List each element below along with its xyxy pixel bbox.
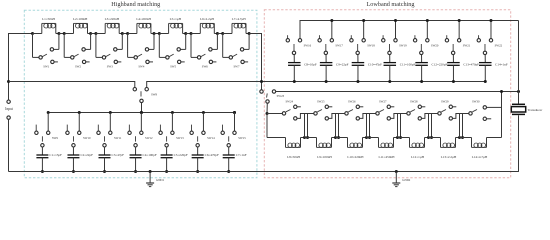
wire highband mid rail — [48, 112, 234, 114]
svg-text:C14=1nF: C14=1nF — [495, 63, 508, 67]
svg-text:GND2: GND2 — [402, 178, 410, 182]
switch SW4 (bypass L4) — [128, 34, 154, 69]
node L6 left — [190, 32, 193, 35]
wire L3 lead-in — [96, 33, 105, 35]
wire C1 to ground rail — [41, 158, 43, 172]
svg-text:L14=4.7μH: L14=4.7μH — [472, 155, 488, 159]
wire chain lead-out L8 — [301, 137, 305, 139]
inductor L2 — [73, 17, 88, 34]
wire L3 lead-out — [119, 33, 122, 35]
switch SW6 (bypass L6) — [191, 34, 217, 69]
switch SW7 (bypass L7) — [223, 34, 249, 69]
svg-text:C4=100pF: C4=100pF — [143, 153, 157, 157]
switch SW17 (series with C9) — [318, 35, 344, 62]
svg-text:L5=1μH: L5=1μH — [170, 17, 182, 21]
node mid-rail riser C4 — [140, 111, 143, 114]
capacitor C13 — [447, 63, 479, 67]
node chain output junction — [500, 90, 503, 93]
switch SW15 (series with C7) — [221, 113, 246, 155]
svg-text:SW25: SW25 — [317, 100, 325, 104]
wire input column upper — [8, 33, 10, 100]
switch SW26 (bypass L10) — [339, 100, 376, 139]
svg-text:SW28: SW28 — [410, 100, 418, 104]
wire L2 lead-in — [64, 33, 73, 35]
wire C7 to ground rail — [228, 158, 230, 172]
svg-text:SW3: SW3 — [107, 65, 114, 69]
wire L1 lead-out — [56, 33, 59, 35]
node top-rail C12 — [426, 19, 429, 22]
switch SW14 (series with C6) — [190, 113, 215, 155]
capacitor C4 — [130, 153, 157, 158]
node L6 right — [216, 32, 219, 35]
wire L7 lead-in — [223, 33, 232, 35]
node mid rail right end — [233, 111, 236, 114]
wire L5 lead-out — [183, 33, 186, 35]
wire C13 down — [452, 65, 454, 81]
capacitor C6 — [192, 153, 219, 158]
node L4 right — [153, 32, 156, 35]
svg-text:C8=10pF: C8=10pF — [304, 63, 317, 67]
switch SW13 (series with C5) — [159, 113, 184, 155]
wire riser C9 — [331, 21, 333, 41]
wire L1 lead-in — [33, 33, 42, 35]
svg-text:Transducer: Transducer — [528, 108, 544, 112]
svg-text:SW5: SW5 — [170, 65, 177, 69]
svg-text:L3=220nH: L3=220nH — [105, 17, 120, 21]
svg-text:L11=450nH: L11=450nH — [378, 155, 395, 159]
switch SW10 (series with C2) — [66, 113, 91, 155]
capacitor C11 — [384, 63, 416, 67]
transducer (crystal symbol) — [511, 104, 543, 114]
capacitor C12 — [415, 63, 447, 67]
capacitor C3 — [99, 153, 125, 158]
node C5 ground — [165, 170, 168, 173]
wire shunt-select rail right — [147, 82, 486, 88]
wire transducer to ground — [518, 115, 520, 172]
svg-text:L2=100nH: L2=100nH — [73, 17, 88, 21]
switch SW18 (series with C10) — [350, 35, 376, 62]
svg-text:SW12: SW12 — [145, 136, 153, 140]
node L1 left — [31, 32, 34, 35]
svg-text:SW2: SW2 — [75, 65, 82, 69]
svg-text:L13=2.2μH: L13=2.2μH — [441, 155, 457, 159]
inductor L1 — [42, 17, 56, 34]
svg-text:SW29: SW29 — [441, 100, 449, 104]
node mid-rail riser C6 — [202, 111, 205, 114]
node top-rail C11 — [394, 19, 397, 22]
svg-text:C11=100pF: C11=100pF — [400, 63, 416, 67]
wire chain lead-out L9 — [332, 137, 336, 139]
inductor L6 — [200, 17, 214, 34]
node SW8-rail — [140, 111, 143, 114]
svg-text:L1=50nH: L1=50nH — [42, 17, 55, 21]
svg-text:SW24: SW24 — [286, 100, 294, 104]
node lowband input — [266, 112, 269, 115]
wire C10 down — [357, 65, 359, 81]
svg-text:SW21: SW21 — [463, 44, 471, 48]
svg-text:L6=2.2μH: L6=2.2μH — [200, 17, 214, 21]
wire L5 lead-in — [159, 33, 168, 35]
switch SW1 (bypass L1) — [33, 34, 59, 69]
svg-text:L12=1μH: L12=1μH — [411, 155, 425, 159]
wire C12 down — [421, 65, 423, 81]
capacitor C2 — [67, 153, 93, 158]
wire chain lead-out L11 — [394, 137, 398, 139]
node top-rail C13 — [458, 19, 461, 22]
wire input column lower — [8, 119, 10, 171]
wire chain segment before L9 — [305, 137, 317, 139]
inductor L12 — [410, 138, 425, 160]
wire C4 to ground rail — [135, 158, 137, 172]
node L12 right — [427, 136, 430, 139]
svg-text:L4=450nH: L4=450nH — [136, 17, 151, 21]
wire chain segment before L10 — [336, 137, 348, 139]
svg-text:SW8: SW8 — [151, 93, 158, 97]
inductor L10 — [347, 138, 364, 160]
node top-rail C10 — [362, 19, 365, 22]
wire rail segment after L6 — [217, 33, 222, 35]
wire rail segment after L1 — [59, 33, 64, 35]
svg-text:GND1: GND1 — [156, 178, 164, 182]
svg-text:C9=22pF: C9=22pF — [336, 63, 349, 67]
inductor L4 — [136, 17, 151, 34]
wire riser C12 — [426, 21, 428, 41]
node transducer top — [517, 90, 520, 93]
wire chain segment before L12 — [398, 137, 410, 139]
switch SW21 (series with C13) — [445, 35, 471, 62]
node L2 left — [63, 32, 66, 35]
node C9 rail — [325, 80, 328, 83]
svg-text:SW20: SW20 — [431, 44, 439, 48]
switch SW27 (bypass L11) — [370, 100, 407, 139]
svg-text:C10=47pF: C10=47pF — [368, 63, 382, 67]
node C7 ground — [227, 170, 230, 173]
wire C9 down — [325, 65, 327, 81]
capacitor C14 — [479, 63, 508, 67]
switch SW16 (series with C8) — [286, 35, 312, 62]
lowband title — [367, 1, 415, 8]
Input label — [5, 107, 13, 111]
ground GND1 — [146, 170, 164, 187]
svg-text:SW6: SW6 — [202, 65, 209, 69]
node L3 left — [94, 32, 97, 35]
wire L4 lead-out — [151, 33, 154, 35]
inductor L11 — [378, 138, 395, 160]
wire lowband input drop — [266, 114, 268, 138]
svg-text:SW17: SW17 — [335, 44, 343, 48]
switch SW5 (bypass L5) — [159, 34, 185, 69]
wire L6 lead-in — [191, 33, 200, 35]
node L7 left — [221, 32, 224, 35]
svg-text:SW7: SW7 — [234, 65, 241, 69]
inductor L3 — [105, 17, 120, 34]
svg-text:C5=220pF: C5=220pF — [174, 153, 188, 157]
node C6 ground — [196, 170, 199, 173]
svg-text:SW14: SW14 — [207, 136, 215, 140]
wire chain segment before L14 — [460, 137, 472, 139]
svg-text:Input: Input — [5, 107, 13, 111]
wire top rail drop / transducer feed — [518, 21, 520, 104]
capacitor C1 — [36, 153, 62, 158]
switch SW11 (series with C3) — [97, 113, 122, 155]
node mid-rail riser C3 — [109, 111, 112, 114]
node top-rail C9 — [330, 19, 333, 22]
svg-text:SW1: SW1 — [43, 65, 50, 69]
wire L6 lead-out — [214, 33, 217, 35]
node mid rail left end — [47, 111, 50, 114]
svg-text:C3=47pF: C3=47pF — [112, 153, 125, 157]
wire chain lead-out L13 — [456, 137, 460, 139]
node C11 rail — [388, 80, 391, 83]
node L11 right — [396, 136, 399, 139]
node C13 rail — [452, 80, 455, 83]
highband matching dashed box — [24, 10, 257, 178]
node mid-rail riser C7 — [233, 111, 236, 114]
svg-text:SW4: SW4 — [138, 65, 145, 69]
node L4 left — [126, 32, 129, 35]
svg-text:SW15: SW15 — [238, 136, 246, 140]
wire L4 lead-in — [128, 33, 137, 35]
svg-text:L9=100nH: L9=100nH — [317, 155, 332, 159]
svg-text:SW9: SW9 — [52, 136, 59, 140]
switch SW9 (series with C1) — [35, 113, 59, 155]
ground GND2 — [392, 170, 410, 187]
wire rail segment after L4 — [154, 33, 159, 35]
wire C14 down — [484, 65, 486, 81]
capacitor C9 — [320, 63, 349, 67]
wire chain lead-out L10 — [363, 137, 367, 139]
switch SW30 (bypass L14) — [463, 92, 502, 138]
wire L2 lead-out — [88, 33, 91, 35]
node L8 right — [303, 136, 306, 139]
switch SW22 (series with C14) — [477, 35, 503, 62]
node mid-rail riser C2 — [78, 111, 81, 114]
wire riser C11 — [394, 21, 396, 41]
inductor L14 — [472, 138, 488, 160]
wire shunt-select rail left — [9, 82, 135, 88]
wire riser C14 — [490, 21, 492, 41]
capacitor C8 — [288, 63, 317, 67]
inductor L8 — [286, 138, 301, 160]
svg-text:SW30: SW30 — [472, 100, 480, 104]
switch SW3 (bypass L3) — [96, 34, 122, 69]
node C3 ground — [103, 170, 106, 173]
capacitor C5 — [161, 153, 188, 158]
node L5 left — [158, 32, 161, 35]
wire C2 to ground rail — [72, 158, 74, 172]
svg-text:C12=220pF: C12=220pF — [432, 63, 448, 67]
switch SW12 (series with C4) — [128, 113, 153, 155]
wire chain segment before L13 — [429, 137, 441, 139]
node C8 rail — [293, 80, 296, 83]
svg-text:SW11: SW11 — [114, 136, 122, 140]
node C12 rail — [420, 80, 423, 83]
input terminal lower — [7, 116, 10, 119]
svg-text:C1=15pF: C1=15pF — [49, 153, 62, 157]
wire highband output drop — [261, 33, 263, 90]
svg-text:SW27: SW27 — [379, 100, 387, 104]
wire top rail from input — [9, 33, 33, 35]
inductor L13 — [441, 138, 457, 160]
capacitor C7 — [223, 153, 247, 158]
switch SW20 (series with C12) — [413, 35, 439, 62]
wire riser C13 — [458, 21, 460, 41]
capacitor C10 — [352, 63, 382, 67]
wire chain lead-out L12 — [425, 137, 429, 139]
wire chain segment before L11 — [367, 137, 379, 139]
node L1 right — [57, 32, 60, 35]
svg-text:C13=470pF: C13=470pF — [463, 63, 479, 67]
switch SW2 (bypass L2) — [64, 34, 90, 69]
svg-text:C6=470pF: C6=470pF — [205, 153, 219, 157]
wire C11 down — [389, 65, 391, 81]
svg-text:SW19: SW19 — [399, 44, 407, 48]
node highband-out crossing — [260, 80, 263, 83]
svg-text:SW23: SW23 — [277, 94, 285, 98]
wire bottom ground rail — [9, 171, 519, 173]
node C14 rail — [484, 80, 487, 83]
switch SW29 (bypass L13) — [432, 100, 469, 139]
svg-text:SW18: SW18 — [367, 44, 375, 48]
svg-text:L8=50nH: L8=50nH — [287, 155, 300, 159]
svg-text:Lowband matching: Lowband matching — [367, 1, 415, 8]
node L7 right — [248, 32, 251, 35]
switch SW25 (bypass L9) — [308, 100, 345, 139]
svg-text:L7=4.7μH: L7=4.7μH — [232, 17, 246, 21]
svg-text:SW10: SW10 — [83, 136, 91, 140]
node C2 ground — [72, 170, 75, 173]
node mid-rail riser C5 — [171, 111, 174, 114]
svg-text:SW22: SW22 — [495, 44, 503, 48]
node C4 ground — [134, 170, 137, 173]
node C1 ground — [41, 170, 44, 173]
wire rail segment after L3 — [122, 33, 127, 35]
inductor L5 — [169, 17, 183, 34]
wire rail segment after L5 — [186, 33, 191, 35]
node L9 right — [334, 136, 337, 139]
wire C5 to ground rail — [166, 158, 168, 172]
switch SW23 (lowband bypass select) — [260, 90, 285, 114]
highband title — [111, 1, 160, 8]
lowband matching dashed box — [264, 10, 510, 178]
svg-text:SW13: SW13 — [176, 136, 184, 140]
wire L7 lead-out — [246, 33, 249, 35]
node top-rail C14 — [489, 19, 492, 22]
switch SW28 (bypass L12) — [401, 100, 438, 139]
wire highband output top — [249, 33, 261, 35]
wire C3 to ground rail — [104, 158, 106, 172]
node C10 rail — [356, 80, 359, 83]
wire C6 to ground rail — [197, 158, 199, 172]
node L13 right — [458, 136, 461, 139]
wire riser C10 — [363, 21, 365, 41]
node input-rail junction — [7, 80, 10, 83]
node L2 right — [89, 32, 92, 35]
svg-text:C7=1nF: C7=1nF — [236, 153, 247, 157]
inductor L9 — [317, 138, 333, 160]
switch SW24 (bypass L8) — [267, 100, 314, 139]
svg-text:C2=22pF: C2=22pF — [80, 153, 93, 157]
wire lowband top rail — [300, 21, 519, 41]
switch SW19 (series with C11) — [382, 35, 408, 62]
switch SW8 (shunt bank select) — [133, 88, 157, 113]
svg-text:SW26: SW26 — [348, 100, 356, 104]
node L3 right — [121, 32, 124, 35]
wire chain segment before L8 — [267, 137, 286, 139]
inductor L7 — [232, 17, 246, 34]
input terminal upper — [7, 100, 10, 103]
node L5 right — [184, 32, 187, 35]
node L10 right — [365, 136, 368, 139]
wire C8 down — [293, 65, 295, 81]
svg-text:Highband matching: Highband matching — [111, 1, 160, 8]
wire chain lead-out L14 — [487, 137, 502, 139]
wire rail segment after L2 — [91, 33, 96, 35]
svg-text:L10=220nH: L10=220nH — [347, 155, 364, 159]
wire bypass line to transducer — [276, 91, 519, 93]
svg-text:SW16: SW16 — [304, 44, 312, 48]
